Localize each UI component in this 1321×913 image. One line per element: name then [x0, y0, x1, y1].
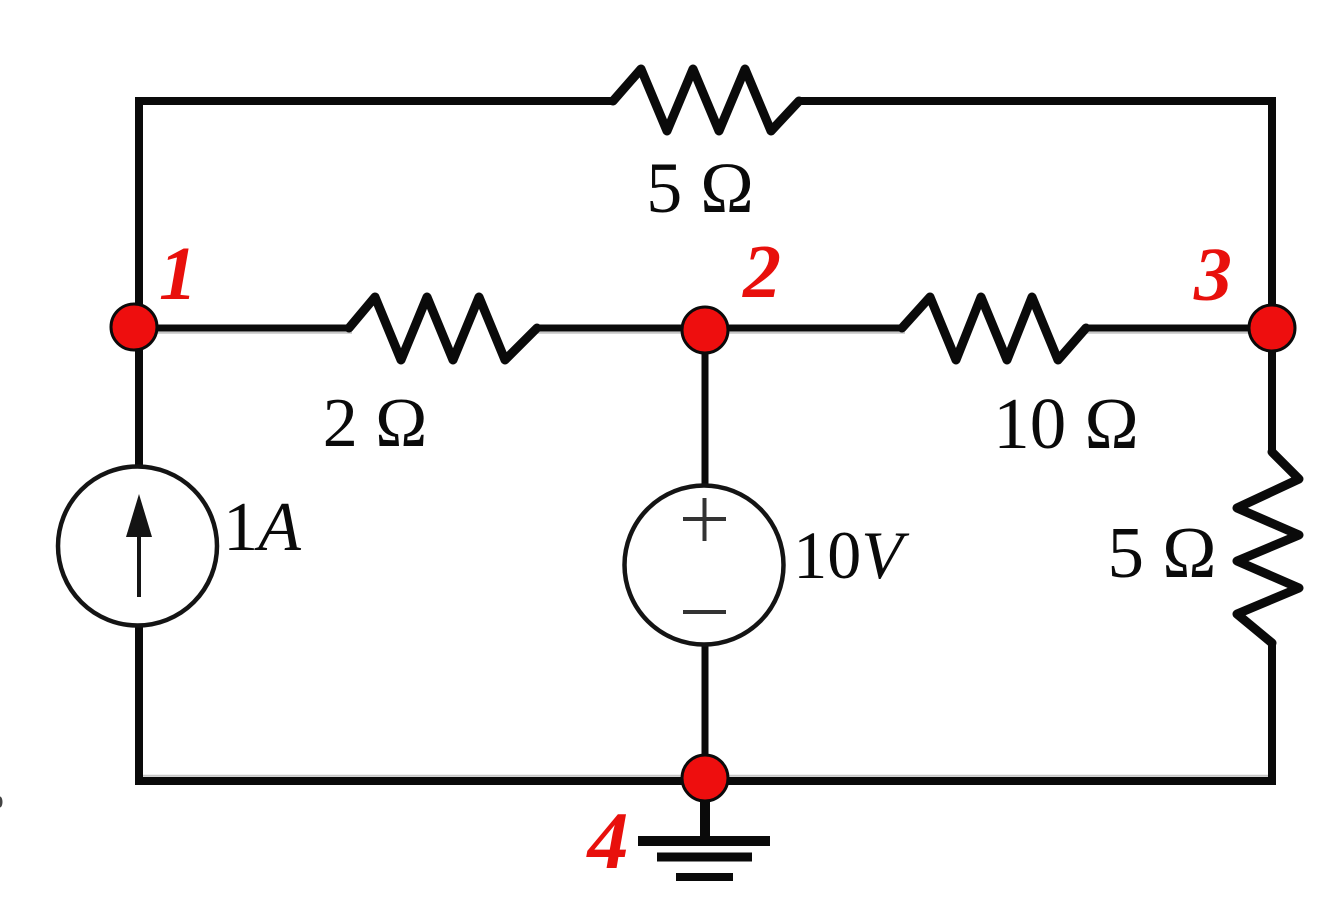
svg-text:5 Ω: 5 Ω [1107, 512, 1216, 593]
svg-text:3: 3 [1193, 233, 1232, 317]
svg-text:10V: 10V [793, 517, 910, 593]
svg-text:1A: 1A [223, 489, 301, 566]
wire mid right [1086, 325, 1272, 332]
wire AA edge mid right [1083, 332, 1272, 334]
wire bottom [135, 777, 1276, 785]
svg-text:2: 2 [742, 230, 781, 314]
wire AA edge mid left [139, 332, 352, 334]
wire left [135, 97, 143, 465]
svg-text:1: 1 [159, 232, 197, 316]
minus sign [683, 610, 726, 614]
voltage source V1 10V [625, 486, 784, 645]
resistor R_top 5ohm [613, 69, 799, 131]
wire top [135, 97, 613, 105]
wire AA edge bottom [135, 775, 1276, 777]
current source arrow [137, 525, 141, 597]
node 4 [682, 755, 728, 801]
resistor R1 2ohm [349, 297, 537, 360]
wire mid left [139, 325, 349, 332]
node 3 [1249, 305, 1295, 351]
wire vsource down [702, 644, 709, 781]
resistor R_right 5ohm [1237, 452, 1299, 643]
wire mid center [537, 325, 902, 332]
ground stem [700, 781, 710, 838]
wire right lower [1268, 643, 1276, 784]
ground bar 3 [676, 873, 733, 881]
node 2 [682, 307, 728, 353]
wire left lower [135, 627, 143, 784]
svg-text:10 Ω: 10 Ω [993, 383, 1139, 464]
ground bar 2 [657, 853, 752, 862]
current source I1 1A [58, 467, 217, 626]
svg-text:2 Ω: 2 Ω [323, 385, 428, 462]
svg-text:5 Ω: 5 Ω [646, 148, 754, 228]
ground bar 1 [638, 836, 770, 846]
wire right upper [1268, 97, 1276, 452]
node 1 [111, 304, 157, 350]
plus sign [683, 517, 726, 521]
edge artifact [0, 797, 3, 808]
wire top right [799, 97, 1276, 105]
svg-text:4: 4 [586, 795, 629, 886]
wire AA edge mid center [534, 332, 905, 334]
wire node2 down [702, 328, 709, 487]
resistor R2 10ohm [902, 297, 1086, 360]
